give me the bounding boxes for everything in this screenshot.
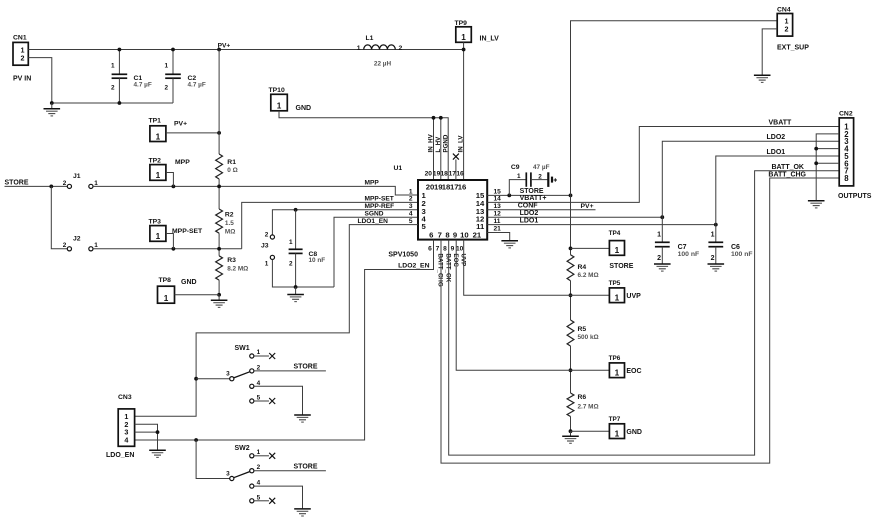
battery storage symbol xyxy=(548,172,557,187)
junction R3 bottom xyxy=(217,293,221,297)
connector CN3 xyxy=(118,394,135,446)
svg-text:J1: J1 xyxy=(73,173,81,180)
svg-text:PV IN: PV IN xyxy=(13,76,31,83)
svg-text:1: 1 xyxy=(257,349,261,356)
test point TP6 xyxy=(609,363,624,378)
junction R2 bottom xyxy=(217,247,221,251)
svg-text:CN2: CN2 xyxy=(839,110,853,117)
svg-text:1: 1 xyxy=(265,261,269,268)
wire pin 19 up xyxy=(440,118,442,180)
svg-text:8: 8 xyxy=(443,246,447,253)
svg-text:1: 1 xyxy=(615,246,620,255)
svg-text:1: 1 xyxy=(257,449,261,456)
svg-text:MPP-SET: MPP-SET xyxy=(172,228,203,235)
svg-text:TP4: TP4 xyxy=(609,230,621,237)
svg-text:EXT_SUP: EXT_SUP xyxy=(777,45,809,52)
junction C8 top tap xyxy=(294,208,298,212)
svg-text:2: 2 xyxy=(785,25,789,34)
svg-text:2: 2 xyxy=(21,54,25,63)
svg-text:2: 2 xyxy=(538,174,542,181)
svg-text:STORE: STORE xyxy=(520,188,544,195)
junction UVP row xyxy=(569,293,573,297)
capacitor C2 xyxy=(164,50,205,104)
svg-text:5: 5 xyxy=(257,494,261,501)
junction LDO1 column xyxy=(714,223,718,227)
svg-text:PV+: PV+ xyxy=(174,121,187,128)
svg-text:1: 1 xyxy=(289,239,293,246)
wire R5 to EOC row xyxy=(570,346,572,393)
wire CN1 pin2 to ground rail xyxy=(28,58,52,103)
ground R6 xyxy=(570,431,572,436)
test point TP8 xyxy=(158,286,175,303)
svg-text:5: 5 xyxy=(257,395,261,402)
svg-text:21: 21 xyxy=(494,226,502,233)
capacitor C6 xyxy=(708,225,752,264)
junction EOC row xyxy=(569,368,573,372)
svg-text:9: 9 xyxy=(453,230,457,239)
svg-text:4: 4 xyxy=(409,211,413,218)
svg-text:IN_LV: IN_LV xyxy=(480,36,500,43)
test point TP10 xyxy=(271,94,288,111)
test point TP5 xyxy=(609,288,624,303)
wire STORE down to J2 xyxy=(51,186,67,248)
svg-text:2: 2 xyxy=(399,45,403,52)
svg-text:TP8: TP8 xyxy=(159,277,172,284)
wire J3 to gnd rail xyxy=(272,260,334,288)
svg-text:2: 2 xyxy=(711,255,715,262)
capacitor C7 xyxy=(655,217,699,264)
svg-text:20: 20 xyxy=(425,170,433,177)
wire LDO1_EN pin 5 route xyxy=(135,225,418,417)
svg-text:10: 10 xyxy=(460,230,469,239)
svg-text:PV+: PV+ xyxy=(581,203,594,210)
svg-text:LDO1: LDO1 xyxy=(767,149,786,156)
junction CN2 pin4 tie xyxy=(814,147,818,151)
svg-text:OUTPUTS: OUTPUTS xyxy=(838,193,872,200)
wire TP7 stub xyxy=(571,430,610,432)
wire TP8 to R3 bottom xyxy=(175,294,220,296)
capacitor C9 xyxy=(509,164,549,195)
junction LDO2 column xyxy=(660,215,664,219)
test point TP7 xyxy=(609,424,624,439)
svg-text:CONF: CONF xyxy=(518,203,539,210)
junction STORE split xyxy=(49,185,53,189)
ground R3 xyxy=(218,295,220,301)
svg-text:SW2: SW2 xyxy=(235,445,250,452)
svg-text:5: 5 xyxy=(422,222,427,231)
svg-text:1: 1 xyxy=(615,293,620,302)
svg-text:4: 4 xyxy=(124,436,128,445)
wire R2 to MPP-SET row xyxy=(218,233,220,256)
wire UVP stub to TP5 xyxy=(571,294,610,296)
svg-text:17: 17 xyxy=(449,170,457,177)
wire TP10 gnd to PGND pin 18 xyxy=(279,111,448,180)
wire LDO1 column to CN2 pin5 xyxy=(716,156,839,225)
svg-text:12: 12 xyxy=(494,211,502,218)
svg-text:19: 19 xyxy=(433,170,441,177)
svg-text:TP2: TP2 xyxy=(149,157,162,164)
wire CN2 ground tie pins 2 4 6 xyxy=(816,134,839,200)
junction R1 bottom xyxy=(217,185,221,189)
svg-text:3: 3 xyxy=(226,371,230,378)
inductor L1 xyxy=(357,35,403,68)
svg-text:1: 1 xyxy=(94,180,98,187)
svg-text:C6: C6 xyxy=(731,244,740,251)
svg-text:1: 1 xyxy=(461,33,466,42)
svg-text:7: 7 xyxy=(436,246,440,253)
svg-text:CN1: CN1 xyxy=(13,35,27,42)
svg-text:TP6: TP6 xyxy=(609,355,621,362)
svg-text:4.7 µF: 4.7 µF xyxy=(188,82,206,89)
svg-text:2: 2 xyxy=(257,464,261,471)
junction C2 top xyxy=(171,48,175,52)
junction C1 top xyxy=(118,48,122,52)
svg-text:1: 1 xyxy=(164,294,169,303)
junction SW1 branch xyxy=(194,377,198,381)
junction C9 tap xyxy=(507,194,511,198)
wire VBATT+ pin 14 row xyxy=(487,127,839,203)
junction pin20 xyxy=(432,116,436,120)
svg-text:21: 21 xyxy=(473,230,482,239)
svg-text:13: 13 xyxy=(494,203,502,210)
svg-text:1: 1 xyxy=(94,242,98,249)
svg-text:47 µF: 47 µF xyxy=(533,164,550,171)
resistor R1 xyxy=(216,154,238,179)
wire CN3 pin2 pin3 tie xyxy=(135,424,158,450)
resistor R3 xyxy=(216,256,249,280)
wire LDO1 pin 11 row xyxy=(487,224,716,226)
svg-text:10 nF: 10 nF xyxy=(309,257,326,264)
pin labels left xyxy=(358,180,395,225)
wire LDO2_EN pin 6 route xyxy=(135,240,434,440)
jumper J3 xyxy=(261,231,275,267)
jumper J2 xyxy=(63,235,98,251)
svg-text:16: 16 xyxy=(456,170,464,177)
svg-text:L_HV: L_HV xyxy=(435,136,442,153)
svg-text:1: 1 xyxy=(711,231,715,238)
wire R1 to MPP row xyxy=(218,179,220,209)
connector CN4 xyxy=(777,6,793,36)
junction pin19 xyxy=(439,116,443,120)
wire to SW1 common xyxy=(196,378,230,380)
switch SW1 xyxy=(226,345,326,422)
wire EOC pin 9 route xyxy=(456,240,570,371)
svg-text:CN3: CN3 xyxy=(118,394,132,401)
svg-text:CN4: CN4 xyxy=(777,6,791,13)
svg-text:EOC: EOC xyxy=(452,254,459,268)
svg-text:LDO2: LDO2 xyxy=(767,134,786,141)
test point TP2 xyxy=(150,165,166,181)
svg-text:C7: C7 xyxy=(678,244,687,251)
pin numbers right outside xyxy=(494,188,502,232)
junction STORE column xyxy=(569,194,573,198)
svg-text:1: 1 xyxy=(156,132,161,141)
svg-text:LDO2: LDO2 xyxy=(520,210,539,217)
svg-text:9: 9 xyxy=(451,246,455,253)
wire TP2 down xyxy=(166,173,174,187)
svg-text:1: 1 xyxy=(357,45,361,52)
wire UVP pin 10 route xyxy=(464,240,571,296)
svg-text:UVP: UVP xyxy=(459,254,466,267)
junction SW2 branch xyxy=(194,438,198,442)
svg-text:11: 11 xyxy=(494,218,501,225)
wire TP3 down xyxy=(166,234,174,249)
wire MPP row xyxy=(93,186,418,195)
svg-text:R6: R6 xyxy=(578,394,587,401)
pin labels top rotated xyxy=(428,133,465,152)
svg-text:R1: R1 xyxy=(227,159,236,166)
svg-text:2: 2 xyxy=(63,180,67,187)
svg-text:UVP: UVP xyxy=(626,293,641,300)
wire STORE column to TP4 xyxy=(570,195,572,254)
svg-text:BATT_CHG: BATT_CHG xyxy=(768,171,806,178)
svg-text:3: 3 xyxy=(409,203,413,210)
svg-text:C9: C9 xyxy=(511,164,520,171)
test point TP4 xyxy=(609,241,624,256)
ground CN2 xyxy=(808,200,825,202)
junction CN3 tie xyxy=(156,430,160,434)
svg-text:22 µH: 22 µH xyxy=(374,61,392,68)
svg-text:VBATT: VBATT xyxy=(769,119,793,126)
svg-text:7: 7 xyxy=(438,230,442,239)
svg-text:5: 5 xyxy=(409,218,413,225)
svg-text:100 nF: 100 nF xyxy=(678,251,700,258)
svg-text:SPV1050: SPV1050 xyxy=(388,251,418,258)
wire to SW2 common xyxy=(196,440,230,479)
pin numbers left outside xyxy=(409,188,413,225)
wire BATT_OK pin 8 route xyxy=(449,171,840,455)
wire MPP-SET row xyxy=(93,248,242,250)
svg-text:STORE: STORE xyxy=(609,263,633,270)
svg-text:SW1: SW1 xyxy=(235,345,250,352)
svg-text:LDO2_EN: LDO2_EN xyxy=(398,262,429,269)
resistor R5 xyxy=(567,320,599,346)
svg-text:IN_LV: IN_LV xyxy=(458,135,465,153)
svg-text:BATT_OK: BATT_OK xyxy=(444,254,451,283)
svg-text:MPP-REF: MPP-REF xyxy=(365,203,395,210)
svg-text:2: 2 xyxy=(409,196,413,203)
svg-text:4: 4 xyxy=(257,380,261,387)
wire EOC stub to TP6 xyxy=(571,369,610,371)
junction TP3 tap xyxy=(172,247,176,251)
svg-text:10: 10 xyxy=(456,246,464,253)
wire STORE pin 15 row xyxy=(487,194,570,196)
junction TP4 tap xyxy=(569,247,573,251)
ground input xyxy=(51,103,53,109)
svg-text:R5: R5 xyxy=(578,326,587,333)
svg-text:PGND: PGND xyxy=(442,134,449,152)
svg-text:MPP: MPP xyxy=(365,180,380,187)
wire R4 to UVP row xyxy=(570,281,572,320)
svg-text:2: 2 xyxy=(164,85,168,92)
svg-text:TP3: TP3 xyxy=(149,218,162,225)
junction TP7 row xyxy=(569,429,573,433)
svg-text:6: 6 xyxy=(428,246,432,253)
svg-text:J3: J3 xyxy=(261,243,269,250)
connector CN1 xyxy=(13,35,28,66)
svg-text:4.7 µF: 4.7 µF xyxy=(134,82,152,89)
test point TP9 xyxy=(456,27,472,43)
ground pin 21 xyxy=(501,240,518,242)
svg-text:MΩ: MΩ xyxy=(225,229,235,236)
capacitor C1 xyxy=(111,50,152,104)
svg-text:R3: R3 xyxy=(227,257,236,264)
wire TP4 stub xyxy=(571,247,610,249)
svg-text:IN_HV: IN_HV xyxy=(428,133,435,152)
svg-text:500 kΩ: 500 kΩ xyxy=(578,334,599,341)
svg-text:2: 2 xyxy=(111,85,115,92)
svg-text:GND: GND xyxy=(181,279,197,286)
svg-text:1.5: 1.5 xyxy=(225,220,234,227)
ground C7 xyxy=(654,263,671,265)
connector CN2 xyxy=(839,110,854,185)
svg-text:1: 1 xyxy=(164,63,168,70)
ground C8 xyxy=(295,287,297,295)
wire R6 to gnd row xyxy=(570,417,572,432)
no-connect pin 17 xyxy=(455,160,457,181)
svg-text:L1: L1 xyxy=(366,35,374,42)
pin numbers bottom outside xyxy=(428,246,464,253)
svg-text:U1: U1 xyxy=(394,165,403,172)
svg-text:1: 1 xyxy=(409,188,413,195)
svg-text:20: 20 xyxy=(426,182,435,191)
svg-text:1: 1 xyxy=(615,429,620,438)
jumper J1 xyxy=(63,173,98,189)
wire pin 21 to ground xyxy=(487,233,510,241)
svg-text:STORE: STORE xyxy=(294,463,318,470)
svg-text:GND: GND xyxy=(296,105,312,112)
wire TP9 to IN_LV pin 16 xyxy=(463,42,465,180)
wire MPP-SET pin2 route xyxy=(242,202,418,248)
ground CN3 xyxy=(149,449,166,451)
svg-text:1: 1 xyxy=(156,171,161,180)
svg-text:100 nF: 100 nF xyxy=(731,251,753,258)
junction TP2 tap xyxy=(172,185,176,189)
svg-text:EOC: EOC xyxy=(626,368,641,375)
junction CN2 pin6 tie xyxy=(814,161,818,165)
svg-text:R4: R4 xyxy=(578,264,587,271)
svg-text:LDO1_EN: LDO1_EN xyxy=(358,218,389,225)
svg-text:2: 2 xyxy=(265,231,269,238)
svg-text:1: 1 xyxy=(111,63,115,70)
wire pin 20 up xyxy=(433,118,435,180)
svg-text:R2: R2 xyxy=(225,212,234,219)
svg-text:LDO_EN: LDO_EN xyxy=(106,452,134,459)
junction C1 bottom xyxy=(118,101,122,105)
wire CN4 pin2 to ground xyxy=(762,29,777,75)
wire LDO2 pin 12 row xyxy=(487,216,662,218)
wire CONF pin 13 stub xyxy=(487,209,595,211)
pin labels bottom rotated xyxy=(437,254,467,287)
svg-text:1: 1 xyxy=(517,173,521,180)
wire BATT_CHG pin 7 route xyxy=(441,178,839,463)
svg-text:14: 14 xyxy=(494,196,502,203)
svg-text:2: 2 xyxy=(257,364,261,371)
svg-text:VBATT+: VBATT+ xyxy=(520,195,547,202)
svg-text:1: 1 xyxy=(156,232,161,241)
svg-text:1: 1 xyxy=(657,231,661,238)
svg-text:0 Ω: 0 Ω xyxy=(227,167,237,174)
svg-text:J2: J2 xyxy=(73,235,81,242)
svg-text:2: 2 xyxy=(657,255,661,262)
svg-text:8: 8 xyxy=(844,174,849,183)
switch SW2 xyxy=(226,445,326,516)
svg-text:TP9: TP9 xyxy=(455,20,468,27)
svg-text:MPP-SET: MPP-SET xyxy=(365,196,394,203)
svg-text:LDO1: LDO1 xyxy=(520,217,539,224)
svg-text:3: 3 xyxy=(226,470,230,477)
wire TP1 to PV+ column xyxy=(166,132,219,134)
resistor R4 xyxy=(567,255,599,281)
junction rail IN_LV xyxy=(462,48,466,52)
svg-text:TP1: TP1 xyxy=(149,118,162,125)
ground C6 xyxy=(708,263,725,265)
svg-text:1: 1 xyxy=(277,102,282,111)
wire STORE column top to CN4 xyxy=(571,21,778,196)
svg-text:2: 2 xyxy=(289,261,293,268)
wire PV+ column upper xyxy=(218,50,220,155)
svg-text:4: 4 xyxy=(257,480,261,487)
svg-text:15: 15 xyxy=(494,188,502,195)
svg-text:BATT_OK: BATT_OK xyxy=(771,164,804,171)
svg-text:6: 6 xyxy=(429,230,433,239)
junction input gnd xyxy=(50,101,54,105)
svg-text:6.2 MΩ: 6.2 MΩ xyxy=(578,272,599,279)
svg-text:STORE: STORE xyxy=(5,179,29,186)
test point TP3 xyxy=(150,226,166,242)
resistor R6 xyxy=(567,393,599,417)
test point TP1 xyxy=(150,126,166,142)
svg-text:GND: GND xyxy=(626,429,642,436)
wire MPP-REF pin3 route xyxy=(272,210,418,235)
op-amp U1 SPV1050 body xyxy=(418,180,487,240)
wire SGND pin4 route xyxy=(334,217,418,287)
svg-text:8.2 MΩ: 8.2 MΩ xyxy=(227,266,248,273)
svg-text:8: 8 xyxy=(445,230,450,239)
junction PV+ column xyxy=(217,48,221,52)
wire CN1 pin1 to PV+ rail xyxy=(28,49,463,51)
svg-text:18: 18 xyxy=(441,170,449,177)
svg-text:TP7: TP7 xyxy=(609,416,621,423)
wire STORE stub xyxy=(5,185,68,187)
wire LDO2 column to CN2 pin3 xyxy=(662,141,839,217)
svg-text:TP5: TP5 xyxy=(609,280,621,287)
svg-text:1: 1 xyxy=(615,368,620,377)
junction C8 bottom xyxy=(294,285,298,289)
ground CN4 xyxy=(754,74,771,76)
svg-text:16: 16 xyxy=(458,182,467,191)
svg-text:MPP: MPP xyxy=(175,159,190,166)
wire input ground rail xyxy=(52,102,173,104)
svg-text:TP10: TP10 xyxy=(269,87,285,94)
svg-text:2.7 MΩ: 2.7 MΩ xyxy=(578,403,599,410)
svg-text:2: 2 xyxy=(63,242,67,249)
svg-text:SGND: SGND xyxy=(365,211,384,218)
pin numbers top outside xyxy=(425,170,464,177)
svg-text:STORE: STORE xyxy=(294,364,318,371)
wire R3 to gnd xyxy=(218,280,220,295)
svg-text:BATT_CHG: BATT_CHG xyxy=(437,254,444,287)
resistor R2 xyxy=(216,209,236,236)
capacitor C8 xyxy=(289,210,326,287)
junction TP1 tap xyxy=(217,131,221,135)
